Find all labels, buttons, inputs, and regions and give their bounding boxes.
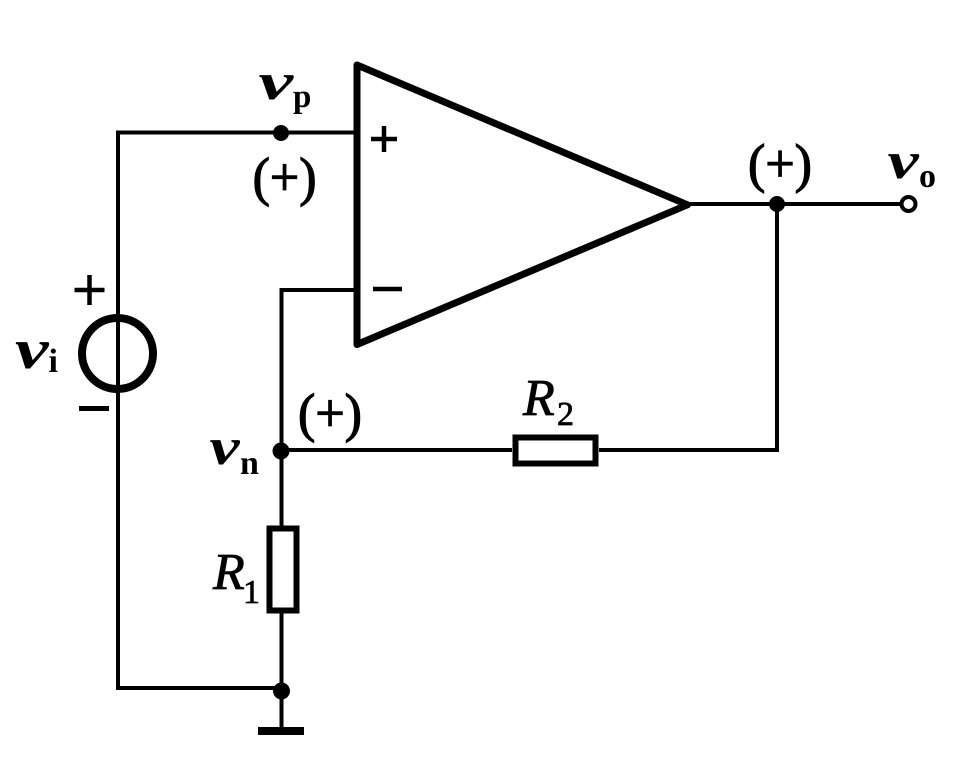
svg-text:i: i — [49, 343, 58, 380]
svg-text:v: v — [15, 319, 50, 380]
op-amp - input pin mark — [373, 287, 402, 292]
wire from source bottom to ground node — [118, 354, 282, 688]
ground junction node — [273, 683, 290, 700]
svg-text:p: p — [293, 79, 311, 115]
resistor R1 — [270, 529, 297, 611]
vi minus polarity mark — [79, 406, 109, 411]
svg-text:v: v — [888, 133, 920, 190]
wire from vn up to op-amp - input — [282, 290, 358, 450]
wire from source top to op-amp + input — [118, 133, 357, 355]
svg-text:o: o — [919, 158, 936, 195]
node vp — [273, 125, 289, 141]
node vn — [273, 443, 290, 460]
svg-text:1: 1 — [243, 574, 260, 611]
output wire from op-amp to terminal — [689, 202, 901, 206]
voltage source vi — [82, 318, 153, 389]
wire from node to ground — [280, 691, 284, 731]
svg-text:(+): (+) — [298, 383, 362, 443]
wire from vn to R1 — [280, 451, 284, 526]
op-amp + input pin mark — [371, 126, 397, 152]
svg-text:v: v — [210, 418, 241, 476]
op-amp U1 — [357, 65, 688, 345]
wire from R1 to ground node — [280, 612, 284, 691]
svg-text:n: n — [240, 445, 259, 482]
resistor R2 — [516, 438, 596, 464]
svg-text:v: v — [259, 54, 294, 111]
svg-text:(+): (+) — [748, 134, 812, 194]
svg-text:2: 2 — [557, 396, 574, 433]
wire from R2 to vn — [282, 448, 513, 452]
feedback wire from output node down to R2 — [599, 204, 777, 450]
output terminal vo — [902, 197, 916, 211]
ground — [258, 727, 304, 735]
svg-text:R: R — [522, 370, 555, 427]
svg-text:R: R — [212, 544, 245, 601]
vi plus polarity mark — [75, 275, 105, 305]
output node — [769, 196, 785, 212]
svg-text:(+): (+) — [253, 147, 317, 207]
